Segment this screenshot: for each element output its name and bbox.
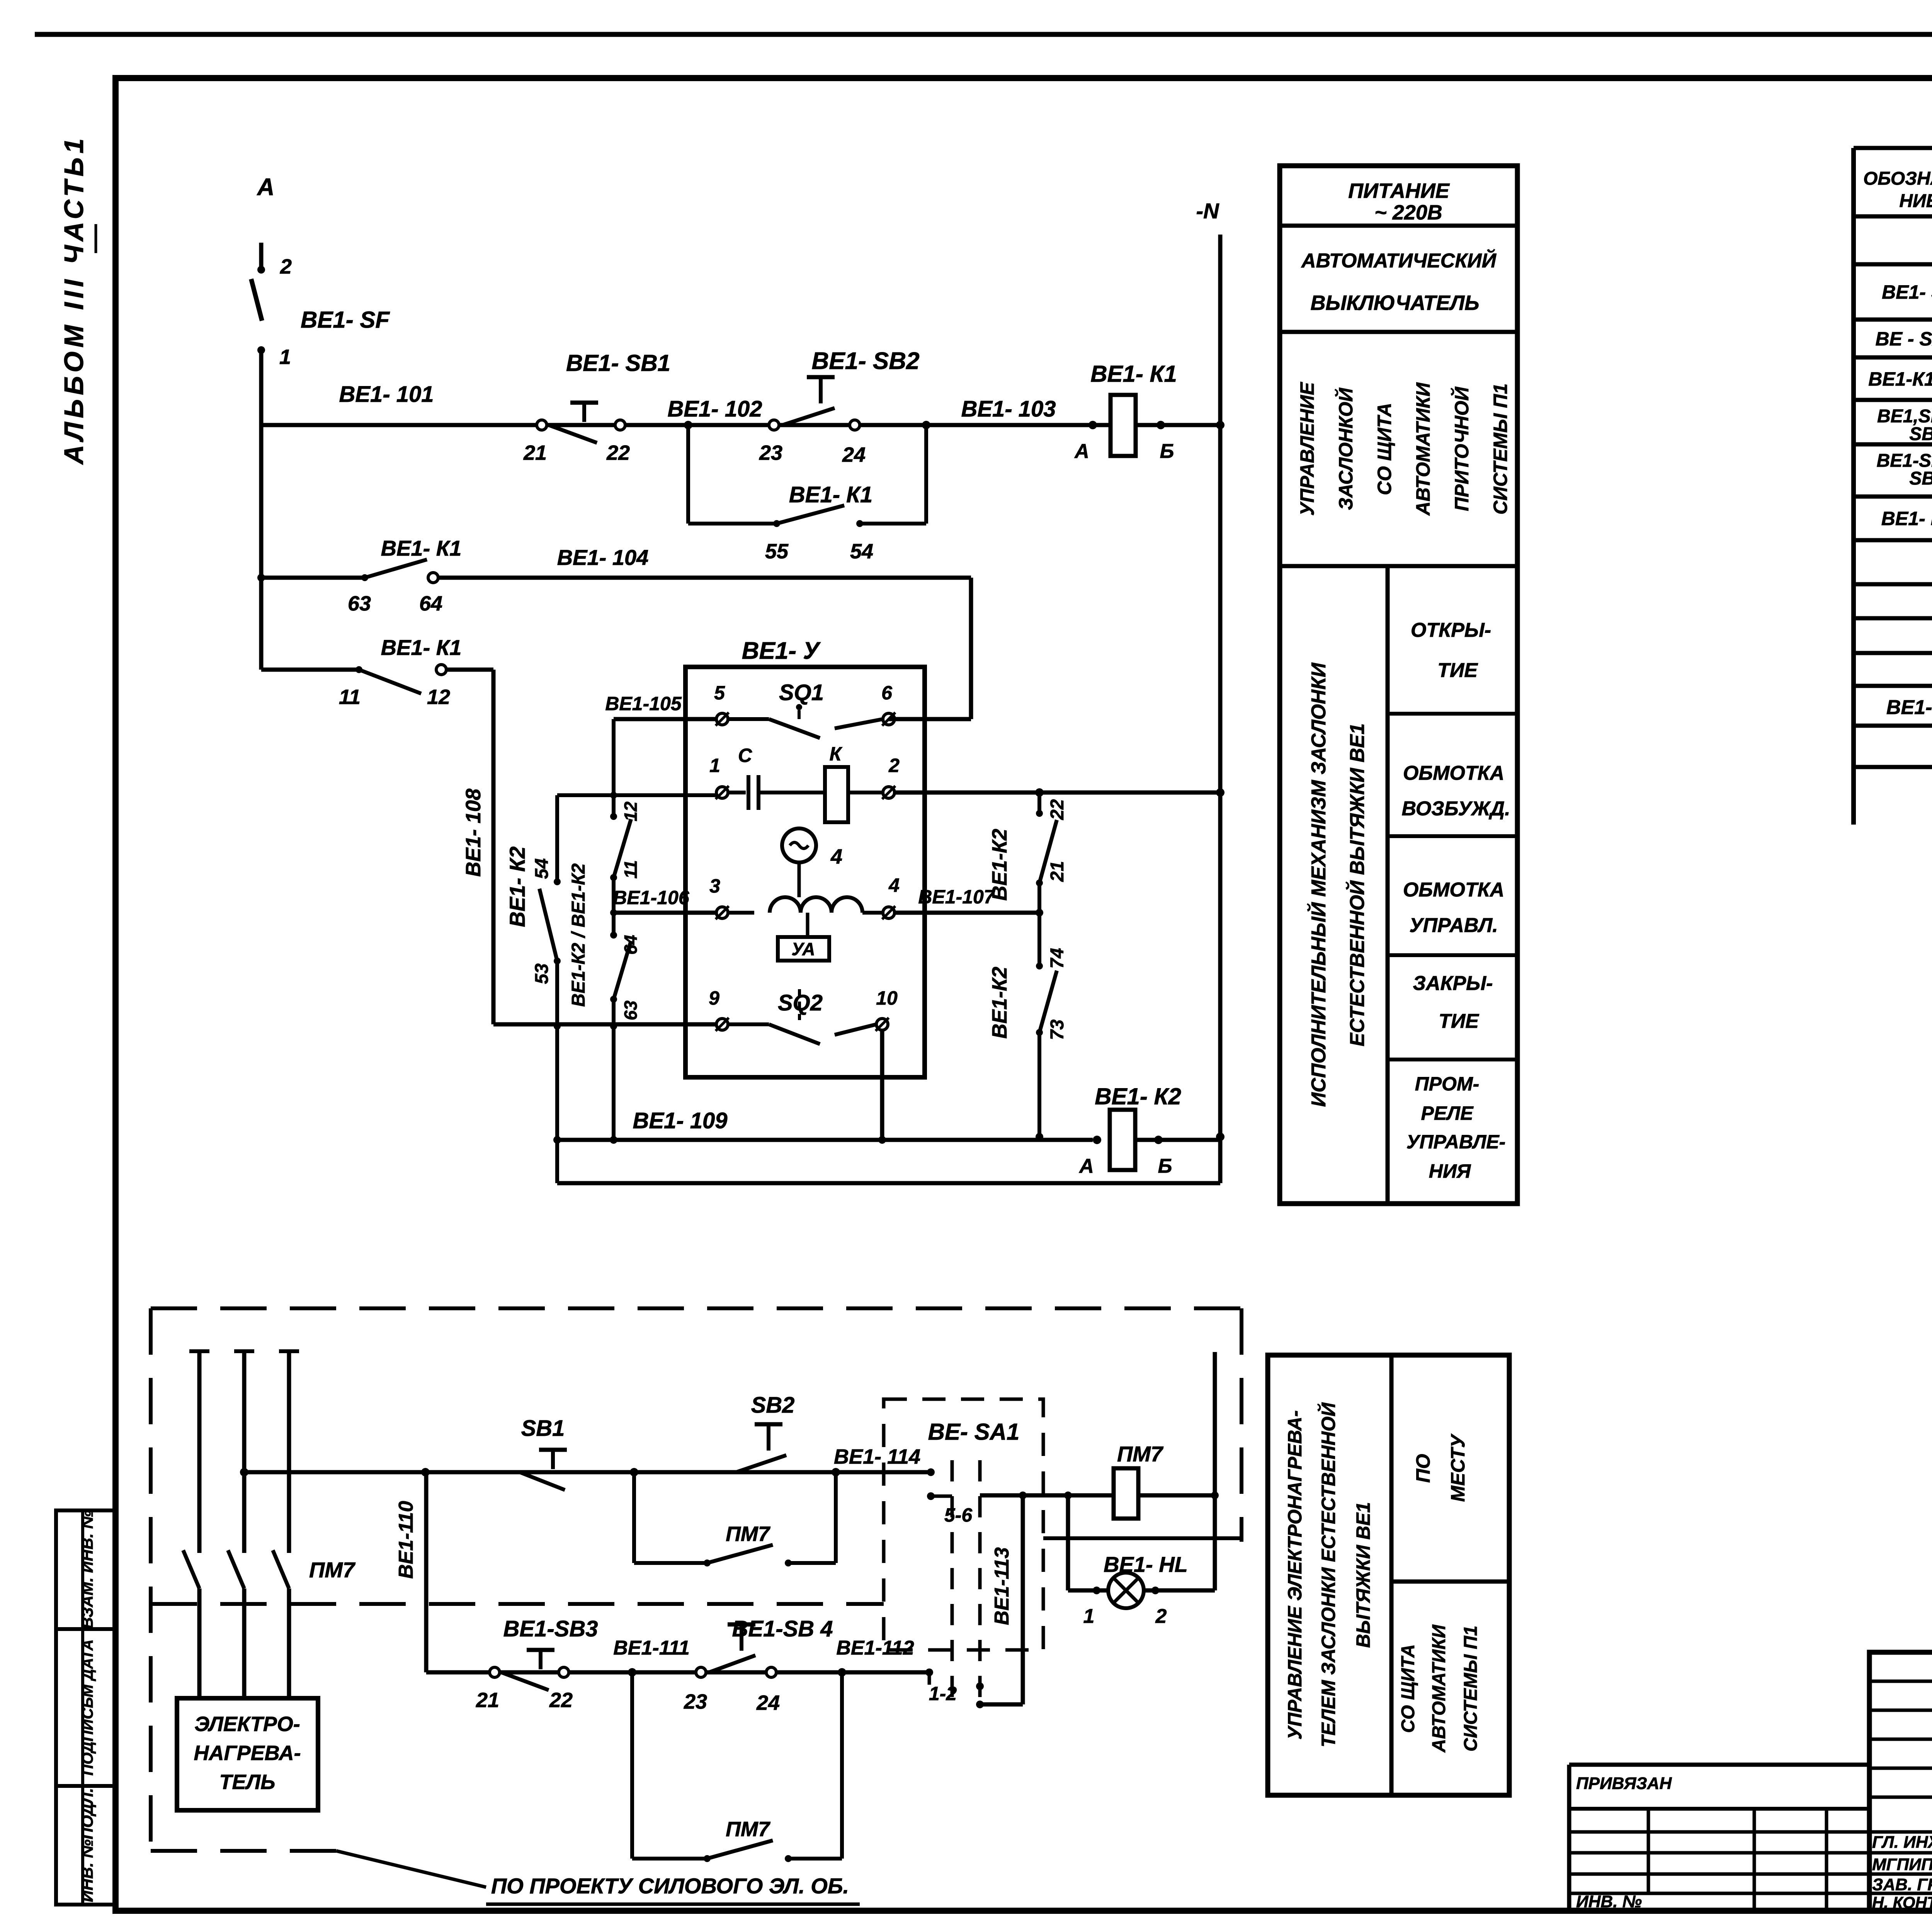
svg-text:К: К (830, 743, 843, 765)
svg-text:ВЕ1-SВ 4: ВЕ1-SВ 4 (732, 1616, 833, 1641)
svg-text:ОБОЗНАЧЕ-: ОБОЗНАЧЕ- (1863, 168, 1932, 189)
svg-text:ВЕ1-SВ3: ВЕ1-SВ3 (503, 1616, 598, 1641)
svg-text:ВЕ1- SВ1: ВЕ1- SВ1 (566, 350, 670, 376)
svg-text:ВЕ1- К1: ВЕ1- К1 (789, 482, 872, 507)
svg-text:Н. КОНТР.: Н. КОНТР. (1872, 1893, 1932, 1912)
svg-text:ТЕЛЬ: ТЕЛЬ (219, 1770, 276, 1794)
svg-text:6: 6 (881, 682, 893, 704)
svg-text:63: 63 (348, 592, 371, 615)
svg-text:~ 220В: ~ 220В (1374, 201, 1442, 224)
svg-text:ПИТАНИЕ: ПИТАНИЕ (1348, 179, 1450, 202)
svg-text:ВЕ1- 114: ВЕ1- 114 (834, 1445, 920, 1468)
svg-text:SQ1: SQ1 (779, 680, 824, 705)
svg-text:РЕЛЕ: РЕЛЕ (1421, 1102, 1474, 1124)
svg-text:СО ЩИТА: СО ЩИТА (1374, 403, 1395, 495)
svg-text:22: 22 (606, 441, 630, 464)
svg-text:1: 1 (279, 345, 291, 369)
svg-text:54: 54 (850, 540, 873, 563)
svg-text:ВЕ1- К1: ВЕ1- К1 (1090, 361, 1177, 387)
svg-text:2: 2 (280, 255, 292, 278)
svg-text:ВЕ1- К2: ВЕ1- К2 (505, 847, 529, 927)
svg-text:ВЕ1-111: ВЕ1-111 (613, 1637, 690, 1659)
svg-text:С: С (738, 745, 752, 766)
svg-text:УПРАВЛЕ-: УПРАВЛЕ- (1406, 1131, 1506, 1153)
svg-text:55: 55 (765, 540, 789, 563)
svg-text:ГЛ. ИНЖ: ГЛ. ИНЖ (1872, 1833, 1932, 1852)
svg-text:SВ2: SВ2 (751, 1393, 795, 1418)
svg-text:НАГРЕВА-: НАГРЕВА- (194, 1742, 301, 1765)
svg-text:АВТОМАТИКИ: АВТОМАТИКИ (1412, 382, 1434, 516)
svg-text:ПРИВЯЗАН: ПРИВЯЗАН (1576, 1774, 1672, 1793)
svg-text:ПМ7: ПМ7 (726, 1522, 771, 1546)
svg-text:ВЕ1- У: ВЕ1- У (742, 638, 821, 664)
svg-text:24: 24 (756, 1691, 780, 1714)
svg-text:ВЕ1-106: ВЕ1-106 (613, 887, 690, 908)
svg-text:ВЕ1- SВ2: ВЕ1- SВ2 (811, 348, 919, 374)
svg-text:2: 2 (888, 755, 900, 776)
svg-text:SВ4: SВ4 (1909, 468, 1932, 489)
svg-text:ЗАСЛОНКОЙ: ЗАСЛОНКОЙ (1335, 388, 1357, 510)
svg-text:ВЕ1- НL: ВЕ1- НL (1881, 508, 1932, 529)
svg-text:Б: Б (1160, 440, 1174, 463)
svg-text:СИСТЕМЫ П1: СИСТЕМЫ П1 (1461, 1626, 1481, 1752)
svg-text:ВЕ- SА1: ВЕ- SА1 (928, 1419, 1020, 1445)
svg-text:22: 22 (1047, 799, 1068, 820)
svg-text:ЭЛЕКТРО-: ЭЛЕКТРО- (194, 1713, 300, 1736)
svg-text:1-2: 1-2 (929, 1683, 957, 1704)
svg-text:ЗАКРЫ-: ЗАКРЫ- (1413, 972, 1493, 995)
svg-text:ВЕ1-113: ВЕ1-113 (991, 1547, 1013, 1625)
svg-text:23: 23 (684, 1690, 707, 1713)
svg-text:А: А (1074, 440, 1089, 463)
svg-text:ИСПОЛНИТЕЛЬНЫЙ МЕХАНИЗМ ЗАСЛ: ИСПОЛНИТЕЛЬНЫЙ МЕХАНИЗМ ЗАСЛОНКИ (1307, 662, 1330, 1107)
svg-text:ОТКРЫ-: ОТКРЫ- (1411, 619, 1491, 641)
svg-text:23: 23 (759, 441, 782, 464)
svg-text:10: 10 (876, 987, 898, 1009)
svg-text:ВЕ1-К2 / ВЕ1-К2: ВЕ1-К2 / ВЕ1-К2 (568, 863, 589, 1007)
svg-text:ВЕ - SА 1: ВЕ - SА 1 (1875, 328, 1932, 350)
svg-text:22: 22 (549, 1689, 573, 1712)
svg-text:А: А (257, 174, 275, 201)
svg-text:11: 11 (621, 860, 641, 879)
svg-text:5: 5 (714, 682, 725, 704)
svg-text:2: 2 (1155, 1605, 1167, 1628)
svg-text:64: 64 (621, 935, 641, 954)
svg-text:СИСТЕМЫ П1: СИСТЕМЫ П1 (1490, 383, 1511, 514)
svg-text:ВЕ1- НL: ВЕ1- НL (1104, 1552, 1188, 1577)
svg-text:ВЕ1- 109: ВЕ1- 109 (633, 1108, 727, 1133)
svg-text:ПМ7: ПМ7 (309, 1558, 356, 1582)
svg-text:ВЕ1-К2: ВЕ1-К2 (988, 967, 1011, 1039)
svg-text:ВЕ1-105: ВЕ1-105 (605, 693, 682, 714)
svg-text:ВЕ1- 103: ВЕ1- 103 (961, 396, 1056, 422)
svg-text:ВЕ1- 108: ВЕ1- 108 (462, 789, 485, 877)
svg-text:ВЕ1-107: ВЕ1-107 (918, 886, 995, 908)
svg-text:АЛЬБОМ III ЧАСТЬ1: АЛЬБОМ III ЧАСТЬ1 (59, 134, 89, 465)
svg-text:ПРИТОЧНОЙ: ПРИТОЧНОЙ (1451, 386, 1473, 511)
svg-text:ТИЕ: ТИЕ (1437, 659, 1478, 682)
svg-text:3: 3 (709, 875, 720, 897)
svg-text:24: 24 (842, 443, 866, 466)
svg-text:ВЕ1- SF: ВЕ1- SF (301, 307, 390, 333)
svg-text:-N: -N (1196, 199, 1219, 223)
svg-text:ЕСТЕСТВЕННОЙ ВЫТЯЖКИ ВЕ1: ЕСТЕСТВЕННОЙ ВЫТЯЖКИ ВЕ1 (1345, 723, 1369, 1046)
svg-text:ПРОМ-: ПРОМ- (1415, 1073, 1480, 1095)
svg-text:ПМ7: ПМ7 (726, 1818, 771, 1841)
svg-text:ВЫКЛЮЧАТЕЛЬ: ВЫКЛЮЧАТЕЛЬ (1311, 291, 1480, 315)
svg-text:SВ1: SВ1 (521, 1416, 565, 1441)
svg-text:ВЕ1- SF: ВЕ1- SF (1882, 281, 1932, 303)
svg-text:ВЕ1-К1; К2: ВЕ1-К1; К2 (1868, 368, 1932, 390)
svg-text:АВТОМАТИКИ: АВТОМАТИКИ (1429, 1624, 1449, 1753)
svg-text:ИНВ. №ПОДЛ.: ИНВ. №ПОДЛ. (78, 1788, 96, 1902)
svg-text:73: 73 (1047, 1019, 1068, 1040)
svg-text:А: А (1078, 1155, 1094, 1177)
svg-text:12: 12 (427, 685, 450, 709)
svg-text:ПМ7: ПМ7 (1117, 1442, 1164, 1466)
svg-text:ТИЕ: ТИЕ (1439, 1010, 1479, 1032)
svg-text:ВЕ1- 102: ВЕ1- 102 (667, 396, 762, 422)
svg-text:ВОЗБУЖД.: ВОЗБУЖД. (1401, 798, 1510, 820)
svg-text:ВЕ1- 101: ВЕ1- 101 (339, 382, 434, 407)
svg-text:МЕСТУ: МЕСТУ (1447, 1433, 1469, 1502)
svg-text:ПО ПРОЕКТУ СИЛОВОГО ЭЛ. ОБ.: ПО ПРОЕКТУ СИЛОВОГО ЭЛ. ОБ. (491, 1874, 849, 1898)
svg-text:УПРАВЛЕНИЕ: УПРАВЛЕНИЕ (1296, 382, 1318, 516)
svg-text:ЗАВ. ГР.: ЗАВ. ГР. (1872, 1875, 1932, 1894)
svg-text:5-6: 5-6 (944, 1504, 973, 1526)
svg-text:ВЕ1- У: ВЕ1- У (1886, 696, 1932, 719)
svg-text:ПО: ПО (1412, 1454, 1434, 1483)
svg-text:21: 21 (1047, 861, 1068, 882)
svg-text:SВ3: SВ3 (1909, 424, 1932, 444)
svg-text:4: 4 (830, 845, 842, 868)
svg-text:21: 21 (523, 441, 547, 464)
svg-text:53: 53 (532, 963, 552, 984)
svg-text:9: 9 (709, 987, 719, 1009)
svg-text:ТЕЛЕМ ЗАСЛОНКИ ЕСТЕСТВЕННОЙ: ТЕЛЕМ ЗАСЛОНКИ ЕСТЕСТВЕННОЙ (1317, 1402, 1339, 1747)
svg-text:ВЕ1- К2: ВЕ1- К2 (1095, 1083, 1181, 1109)
svg-text:ВЕ1-112: ВЕ1-112 (836, 1637, 914, 1659)
svg-text:ВЕ1-К2: ВЕ1-К2 (988, 829, 1011, 901)
svg-text:1: 1 (709, 755, 720, 776)
svg-text:ОБМОТКА: ОБМОТКА (1403, 879, 1504, 901)
svg-text:ВЕ1- 104: ВЕ1- 104 (557, 545, 649, 570)
svg-text:11: 11 (339, 685, 361, 709)
svg-text:ИНВ. №: ИНВ. № (1576, 1892, 1642, 1911)
svg-text:УА: УА (792, 939, 815, 959)
svg-text:МГПИП: МГПИП (1872, 1855, 1932, 1874)
svg-text:4: 4 (888, 874, 900, 896)
svg-text:СО ЩИТА: СО ЩИТА (1398, 1644, 1418, 1733)
svg-text:54: 54 (532, 858, 552, 879)
svg-text:ВЕ1- К1: ВЕ1- К1 (381, 536, 462, 560)
svg-text:УПРАВЛ.: УПРАВЛ. (1409, 914, 1498, 937)
svg-text:АВТОМАТИЧЕСКИЙ: АВТОМАТИЧЕСКИЙ (1301, 249, 1497, 272)
svg-text:Б: Б (1158, 1155, 1172, 1177)
svg-text:ПОДПИСЬМ ДАТА: ПОДПИСЬМ ДАТА (79, 1639, 96, 1776)
svg-text:1: 1 (1083, 1605, 1095, 1628)
svg-text:12: 12 (621, 801, 641, 821)
svg-text:21: 21 (476, 1689, 499, 1712)
svg-text:74: 74 (1047, 948, 1068, 968)
svg-text:ВЕ1- К1: ВЕ1- К1 (381, 635, 462, 660)
svg-text:ВЗАМ. ИНВ. №: ВЗАМ. ИНВ. № (78, 1510, 96, 1629)
svg-text:УПРАВЛЕНИЕ ЭЛЕКТРОНАГРЕВА-: УПРАВЛЕНИЕ ЭЛЕКТРОНАГРЕВА- (1284, 1410, 1306, 1740)
svg-text:ВЕ1-110: ВЕ1-110 (395, 1501, 417, 1578)
svg-text:ОБМОТКА: ОБМОТКА (1403, 762, 1504, 784)
svg-text:ВЫТЯЖКИ ВЕ1: ВЫТЯЖКИ ВЕ1 (1352, 1502, 1374, 1648)
svg-text:64: 64 (419, 592, 442, 615)
svg-text:63: 63 (621, 1000, 641, 1020)
svg-text:НИЯ: НИЯ (1429, 1160, 1471, 1182)
svg-text:НИЕ: НИЕ (1899, 191, 1932, 211)
